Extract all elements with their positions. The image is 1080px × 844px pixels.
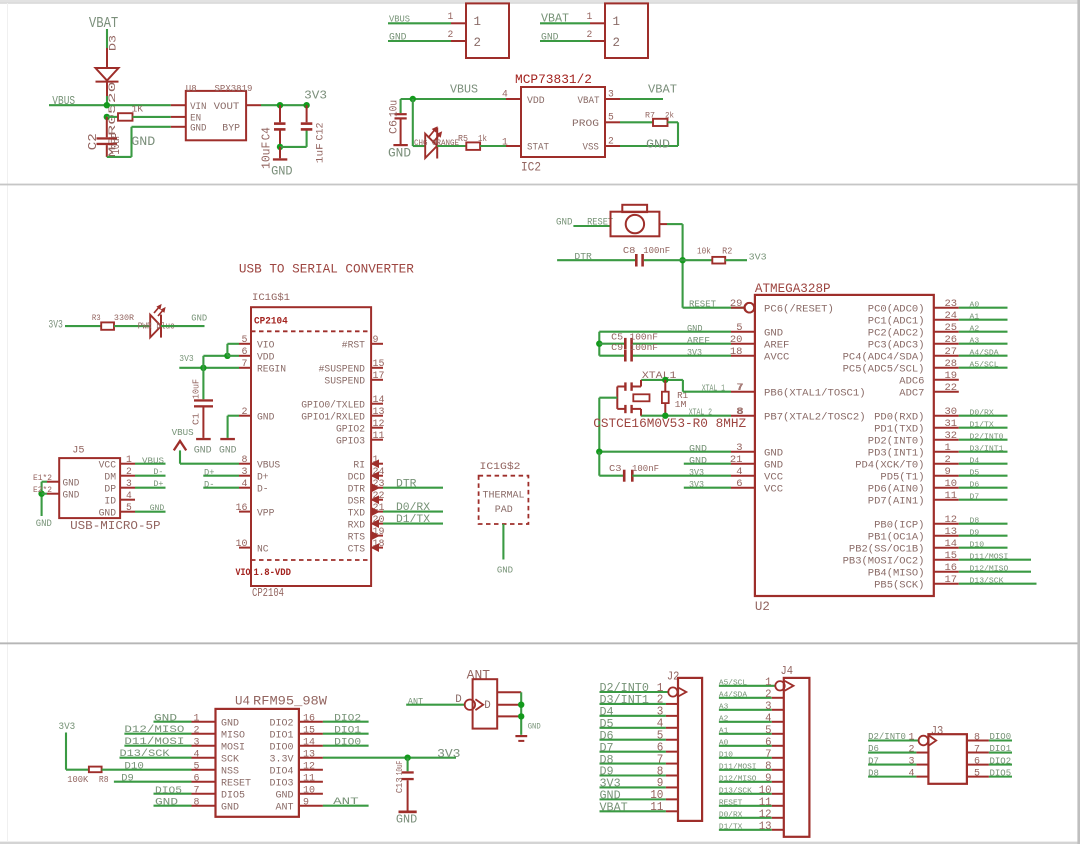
svg-text:C1: C1 xyxy=(191,413,202,425)
svg-text:VSS: VSS xyxy=(583,142,599,154)
svg-text:C9: C9 xyxy=(611,342,623,353)
svg-text:A4/SDA: A4/SDA xyxy=(719,691,748,699)
svg-text:15: 15 xyxy=(303,725,315,736)
svg-text:DSR: DSR xyxy=(348,497,365,508)
svg-text:MISO: MISO xyxy=(221,729,245,741)
svg-text:PB6(XTAL1/TOSC1): PB6(XTAL1/TOSC1) xyxy=(764,387,866,399)
svg-text:VCC: VCC xyxy=(764,471,783,483)
svg-text:GND: GND xyxy=(63,489,80,501)
svg-text:VBUS: VBUS xyxy=(389,14,410,25)
svg-text:D1/TX: D1/TX xyxy=(719,823,743,831)
svg-text:GND: GND xyxy=(528,722,541,731)
svg-text:A4/SDA: A4/SDA xyxy=(970,350,1000,358)
svg-text:D13/SCK: D13/SCK xyxy=(120,748,171,760)
svg-text:13: 13 xyxy=(303,749,315,760)
svg-text:DIO2: DIO2 xyxy=(334,713,361,724)
svg-text:CP2104: CP2104 xyxy=(254,317,288,328)
svg-text:GND: GND xyxy=(271,164,293,179)
svg-text:25: 25 xyxy=(945,322,958,334)
svg-text:3V3: 3V3 xyxy=(179,353,194,364)
svg-text:SUSPEND: SUSPEND xyxy=(324,377,365,388)
svg-text:RXD: RXD xyxy=(348,520,365,531)
svg-text:30: 30 xyxy=(945,406,958,418)
svg-text:10: 10 xyxy=(945,478,958,490)
svg-text:3: 3 xyxy=(242,467,248,478)
svg-text:PC2(ADC2): PC2(ADC2) xyxy=(868,327,925,339)
svg-text:AREF: AREF xyxy=(764,339,789,351)
svg-text:11: 11 xyxy=(945,490,958,502)
svg-text:AVCC: AVCC xyxy=(764,351,789,363)
svg-text:PB7(XTAL2/TOSC2): PB7(XTAL2/TOSC2) xyxy=(764,411,866,423)
svg-text:D-: D- xyxy=(204,480,215,490)
svg-text:CTS: CTS xyxy=(348,544,365,555)
svg-text:7: 7 xyxy=(737,382,743,394)
svg-text:MOSI: MOSI xyxy=(221,741,245,753)
svg-text:D+: D+ xyxy=(153,479,163,489)
svg-text:D0/RX: D0/RX xyxy=(719,811,743,819)
svg-text:20: 20 xyxy=(730,334,743,346)
svg-text:5: 5 xyxy=(126,503,132,514)
svg-text:14: 14 xyxy=(945,538,958,550)
svg-text:PC5(ADC5/SCL): PC5(ADC5/SCL) xyxy=(843,363,925,375)
svg-text:DIO1: DIO1 xyxy=(270,729,294,741)
svg-text:PC6(/RESET): PC6(/RESET) xyxy=(764,303,834,315)
svg-text:C13: C13 xyxy=(395,777,405,793)
svg-text:A2: A2 xyxy=(970,326,980,334)
svg-text:D10: D10 xyxy=(970,542,985,550)
svg-text:DIO1: DIO1 xyxy=(990,744,1012,754)
svg-text:19: 19 xyxy=(945,370,958,382)
svg-text:GND: GND xyxy=(646,138,670,152)
svg-text:2: 2 xyxy=(587,29,593,40)
svg-text:VCC: VCC xyxy=(99,460,116,471)
svg-text:26: 26 xyxy=(945,334,958,346)
svg-text:D3: D3 xyxy=(108,35,120,51)
svg-text:PROG: PROG xyxy=(572,118,599,130)
svg-text:A3: A3 xyxy=(719,703,728,711)
svg-text:3V3: 3V3 xyxy=(749,251,767,262)
svg-text:PB1(OC1A): PB1(OC1A) xyxy=(868,531,925,543)
svg-text:TXD: TXD xyxy=(348,508,365,519)
svg-text:D12/MISO: D12/MISO xyxy=(124,724,184,736)
svg-text:1: 1 xyxy=(613,14,621,29)
svg-text:2: 2 xyxy=(945,454,951,466)
svg-text:PB5(SCK): PB5(SCK) xyxy=(874,579,924,591)
svg-text:D0/RX: D0/RX xyxy=(396,502,430,514)
svg-text:VIO: VIO xyxy=(257,341,274,352)
svg-text:GND: GND xyxy=(63,477,80,489)
svg-text:GND: GND xyxy=(764,459,783,471)
svg-text:A1: A1 xyxy=(719,727,729,735)
svg-text:D-: D- xyxy=(257,485,269,496)
svg-text:VBUS: VBUS xyxy=(172,427,194,438)
svg-text:5: 5 xyxy=(194,761,200,772)
svg-text:1: 1 xyxy=(765,677,772,689)
svg-text:SPX3819: SPX3819 xyxy=(215,84,253,94)
svg-text:J3: J3 xyxy=(931,724,944,738)
svg-text:DIO4: DIO4 xyxy=(270,765,294,777)
svg-text:VDD: VDD xyxy=(257,353,274,364)
svg-text:VDD: VDD xyxy=(527,95,545,107)
svg-text:17: 17 xyxy=(373,371,385,382)
svg-text:VBUS: VBUS xyxy=(257,461,280,472)
svg-text:18: 18 xyxy=(730,346,743,358)
svg-text:6: 6 xyxy=(194,773,200,784)
svg-text:RESET: RESET xyxy=(689,298,716,309)
svg-text:10u: 10u xyxy=(389,100,401,117)
svg-text:D-: D- xyxy=(153,467,163,477)
svg-text:D2/INT0: D2/INT0 xyxy=(868,732,906,742)
svg-text:PB2(SS/OC1B): PB2(SS/OC1B) xyxy=(849,543,925,555)
svg-text:BYP: BYP xyxy=(222,123,240,135)
svg-text:A0: A0 xyxy=(970,302,980,310)
svg-text:GND: GND xyxy=(497,565,513,576)
svg-text:GND: GND xyxy=(191,314,207,324)
svg-text:GND: GND xyxy=(221,801,239,813)
svg-text:3: 3 xyxy=(126,479,132,490)
svg-text:ADC6: ADC6 xyxy=(899,375,924,387)
svg-text:1: 1 xyxy=(126,455,132,466)
svg-text:10: 10 xyxy=(759,785,772,797)
svg-text:2: 2 xyxy=(126,467,132,478)
svg-text:DTR: DTR xyxy=(396,478,417,490)
svg-text:DIO5: DIO5 xyxy=(155,786,182,797)
svg-text:3: 3 xyxy=(608,88,614,99)
svg-text:D8: D8 xyxy=(970,518,980,526)
svg-text:21: 21 xyxy=(730,454,743,466)
svg-text:DIO5: DIO5 xyxy=(221,789,245,801)
svg-text:U4: U4 xyxy=(235,695,250,709)
svg-text:D9: D9 xyxy=(970,530,980,538)
svg-text:8: 8 xyxy=(194,797,200,808)
svg-text:GND: GND xyxy=(257,413,274,424)
svg-text:AREF: AREF xyxy=(687,335,710,346)
svg-text:4: 4 xyxy=(502,88,508,99)
svg-text:D9: D9 xyxy=(121,773,134,784)
svg-text:DM: DM xyxy=(104,472,116,483)
svg-text:4: 4 xyxy=(126,491,132,502)
svg-text:R8: R8 xyxy=(99,774,109,785)
svg-text:RTS: RTS xyxy=(348,532,365,543)
svg-text:12: 12 xyxy=(945,514,958,526)
svg-text:1uF: 1uF xyxy=(315,143,327,163)
svg-text:23: 23 xyxy=(945,298,958,310)
svg-text:6: 6 xyxy=(765,737,772,749)
svg-text:VBAT: VBAT xyxy=(600,802,628,815)
svg-text:1: 1 xyxy=(474,14,482,29)
svg-text:RFM95_98W: RFM95_98W xyxy=(253,695,327,709)
svg-text:1M: 1M xyxy=(675,399,687,410)
svg-text:VBAT: VBAT xyxy=(541,12,569,26)
svg-text:17: 17 xyxy=(945,574,958,586)
svg-text:PD1(TXD): PD1(TXD) xyxy=(874,423,924,435)
svg-text:IC1G$2: IC1G$2 xyxy=(480,461,521,473)
svg-text:GND: GND xyxy=(154,713,177,724)
svg-text:GND: GND xyxy=(99,508,116,519)
svg-text:NSS: NSS xyxy=(221,765,239,777)
svg-text:GND: GND xyxy=(687,323,703,334)
svg-text:3.3V: 3.3V xyxy=(270,753,295,765)
svg-text:12: 12 xyxy=(303,761,315,772)
svg-text:VOUT: VOUT xyxy=(214,101,240,113)
svg-text:10: 10 xyxy=(236,539,248,550)
svg-text:DCD: DCD xyxy=(348,473,365,484)
svg-text:GND: GND xyxy=(689,455,707,466)
svg-text:GPIO2: GPIO2 xyxy=(336,425,365,436)
svg-text:100K: 100K xyxy=(67,774,88,785)
svg-text:D0/RX: D0/RX xyxy=(970,410,995,418)
svg-text:D+: D+ xyxy=(257,473,269,484)
svg-text:GND: GND xyxy=(764,447,783,459)
svg-text:D11/MOSI: D11/MOSI xyxy=(970,554,1009,562)
svg-text:D3/INT1: D3/INT1 xyxy=(970,446,1004,454)
svg-text:1k: 1k xyxy=(478,134,487,144)
svg-text:PB0(ICP): PB0(ICP) xyxy=(874,519,924,531)
svg-text:C2: C2 xyxy=(86,133,100,150)
svg-text:GND: GND xyxy=(155,798,178,809)
svg-text:PD0(RXD): PD0(RXD) xyxy=(874,411,924,423)
svg-text:11: 11 xyxy=(650,800,663,814)
svg-text:#SUSPEND: #SUSPEND xyxy=(319,365,365,376)
svg-text:PD3(INT1): PD3(INT1) xyxy=(868,447,925,459)
svg-text:GND: GND xyxy=(764,327,783,339)
svg-text:22: 22 xyxy=(945,382,958,394)
svg-text:A1: A1 xyxy=(970,314,980,322)
svg-text:12: 12 xyxy=(759,809,772,821)
svg-text:XTAL 1: XTAL 1 xyxy=(702,382,726,393)
svg-text:R7: R7 xyxy=(645,111,655,121)
svg-text:10k: 10k xyxy=(697,247,711,257)
svg-text:31: 31 xyxy=(945,418,958,430)
svg-text:1: 1 xyxy=(448,11,454,22)
svg-text:DIO0: DIO0 xyxy=(334,737,361,748)
svg-text:GND: GND xyxy=(221,717,239,729)
svg-text:3: 3 xyxy=(909,756,915,768)
svg-text:11: 11 xyxy=(373,431,385,442)
svg-text:PC1(ADC1): PC1(ADC1) xyxy=(868,315,925,327)
svg-text:E1*2: E1*2 xyxy=(33,474,52,483)
svg-text:5: 5 xyxy=(242,335,248,346)
svg-text:E2*2: E2*2 xyxy=(33,486,52,495)
svg-text:GND: GND xyxy=(556,218,573,229)
svg-text:2: 2 xyxy=(765,689,772,701)
svg-text:28: 28 xyxy=(945,358,958,370)
svg-text:4: 4 xyxy=(909,768,915,780)
svg-text:ID: ID xyxy=(104,496,116,507)
svg-text:3V3: 3V3 xyxy=(304,88,327,102)
svg-text:6: 6 xyxy=(974,756,980,768)
svg-text:PD7(AIN1): PD7(AIN1) xyxy=(868,495,925,507)
svg-text:3V3: 3V3 xyxy=(687,347,702,358)
svg-text:U2: U2 xyxy=(755,600,770,614)
svg-text:D10: D10 xyxy=(719,751,733,759)
svg-text:GPIO3: GPIO3 xyxy=(336,437,365,448)
svg-text:6: 6 xyxy=(242,347,248,358)
svg-text:16: 16 xyxy=(303,713,315,724)
svg-text:10uF: 10uF xyxy=(109,133,123,155)
svg-text:C4: C4 xyxy=(260,127,274,140)
svg-text:VBAT: VBAT xyxy=(89,15,118,32)
svg-text:8: 8 xyxy=(765,761,772,773)
svg-text:PB4(MISO): PB4(MISO) xyxy=(868,567,925,579)
svg-text:5: 5 xyxy=(736,322,742,334)
svg-text:VCC: VCC xyxy=(764,483,783,495)
svg-text:A5/SCL: A5/SCL xyxy=(970,362,999,370)
svg-text:PC3(ADC3): PC3(ADC3) xyxy=(868,339,925,351)
svg-text:1: 1 xyxy=(945,442,951,454)
svg-text:GND: GND xyxy=(150,503,165,513)
svg-text:J4: J4 xyxy=(781,664,794,678)
svg-text:SCK: SCK xyxy=(221,753,240,765)
svg-text:D11/MOSI: D11/MOSI xyxy=(124,736,184,748)
svg-text:3V3: 3V3 xyxy=(48,320,63,332)
svg-text:GND: GND xyxy=(689,443,707,454)
svg-text:D4: D4 xyxy=(970,458,980,466)
svg-text:NC: NC xyxy=(257,544,269,555)
svg-text:8: 8 xyxy=(242,455,248,466)
svg-text:VPP: VPP xyxy=(257,508,274,519)
svg-text:PD6(AIN0): PD6(AIN0) xyxy=(868,483,925,495)
svg-text:D2/INT0: D2/INT0 xyxy=(970,434,1004,442)
svg-text:3V3: 3V3 xyxy=(437,747,460,761)
svg-text:DTR: DTR xyxy=(348,485,365,496)
svg-text:D12/MISO: D12/MISO xyxy=(970,566,1009,574)
svg-text:DIO1: DIO1 xyxy=(334,725,361,736)
svg-text:A5/SCL: A5/SCL xyxy=(719,679,747,687)
svg-text:VBUS: VBUS xyxy=(450,83,478,97)
svg-text:C3: C3 xyxy=(609,463,622,474)
svg-text:D: D xyxy=(455,694,462,706)
svg-text:2: 2 xyxy=(909,744,915,756)
svg-text:9: 9 xyxy=(945,466,951,478)
svg-text:10uF: 10uF xyxy=(191,379,202,399)
svg-text:330R: 330R xyxy=(114,313,134,323)
svg-text:3V3: 3V3 xyxy=(689,467,704,478)
svg-text:D10: D10 xyxy=(124,761,143,772)
svg-text:MCP73831/2: MCP73831/2 xyxy=(515,72,592,87)
svg-text:VIN: VIN xyxy=(190,101,206,113)
svg-text:10: 10 xyxy=(303,785,315,796)
svg-text:ANT: ANT xyxy=(333,797,359,808)
svg-text:8: 8 xyxy=(974,732,980,744)
svg-text:ANT: ANT xyxy=(467,669,491,683)
svg-text:RESET: RESET xyxy=(719,799,743,807)
svg-text:2: 2 xyxy=(194,725,200,736)
svg-text:D: D xyxy=(484,700,491,712)
svg-text:DIO3: DIO3 xyxy=(270,777,294,789)
svg-text:1K: 1K xyxy=(132,104,144,115)
svg-text:7: 7 xyxy=(765,749,771,761)
svg-text:GND: GND xyxy=(190,123,206,135)
svg-text:1: 1 xyxy=(194,713,200,724)
svg-text:PC4(ADC4/SDA): PC4(ADC4/SDA) xyxy=(843,351,925,363)
svg-text:10uF: 10uF xyxy=(260,142,274,169)
svg-text:D1/TX: D1/TX xyxy=(970,422,995,430)
svg-text:A3: A3 xyxy=(970,338,980,346)
svg-text:A0: A0 xyxy=(719,739,728,747)
svg-text:VBAT: VBAT xyxy=(648,83,677,97)
svg-text:D1/TX: D1/TX xyxy=(396,514,430,526)
svg-text:GND: GND xyxy=(36,519,52,530)
svg-text:GND: GND xyxy=(219,446,237,457)
svg-text:13: 13 xyxy=(759,821,772,833)
svg-text:9: 9 xyxy=(303,797,309,808)
svg-text:GND: GND xyxy=(194,446,212,457)
svg-text:15: 15 xyxy=(945,550,958,562)
svg-text:32: 32 xyxy=(945,430,958,442)
svg-text:DIO2: DIO2 xyxy=(270,717,294,729)
svg-text:3: 3 xyxy=(736,442,742,454)
svg-text:USB-MICRO-5P: USB-MICRO-5P xyxy=(70,520,161,533)
svg-text:USB TO SERIAL CONVERTER: USB TO SERIAL CONVERTER xyxy=(239,261,414,276)
svg-text:3V3: 3V3 xyxy=(59,722,76,733)
svg-text:C5: C5 xyxy=(611,331,623,342)
svg-text:7: 7 xyxy=(974,744,980,756)
svg-text:D5: D5 xyxy=(970,470,980,478)
svg-text:VIO: VIO xyxy=(236,568,251,579)
svg-text:GND: GND xyxy=(131,134,155,149)
svg-text:2k: 2k xyxy=(665,111,674,121)
svg-text:10uF: 10uF xyxy=(395,761,405,775)
svg-text:RI: RI xyxy=(353,461,365,472)
svg-text:13: 13 xyxy=(945,526,958,538)
svg-text:C12: C12 xyxy=(315,123,327,141)
svg-text:4: 4 xyxy=(242,479,248,490)
svg-text:DIO2: DIO2 xyxy=(990,756,1012,766)
svg-text:DIO5: DIO5 xyxy=(990,768,1012,778)
svg-text:7: 7 xyxy=(242,359,248,370)
svg-text:GND: GND xyxy=(541,32,559,43)
svg-text:D+: D+ xyxy=(204,468,215,478)
svg-text:R2: R2 xyxy=(722,247,732,257)
svg-text:7: 7 xyxy=(194,785,200,796)
svg-text:29: 29 xyxy=(730,298,743,310)
svg-text:DIO0: DIO0 xyxy=(990,732,1012,742)
svg-text:PC0(ADC0): PC0(ADC0) xyxy=(868,303,925,315)
svg-text:1.8-VDD: 1.8-VDD xyxy=(254,568,292,579)
svg-text:ANT: ANT xyxy=(276,801,294,813)
svg-text:3V3: 3V3 xyxy=(689,479,704,490)
svg-text:14: 14 xyxy=(303,737,315,748)
svg-text:CP2104: CP2104 xyxy=(252,587,284,600)
svg-text:D12/MISO: D12/MISO xyxy=(719,775,757,783)
svg-text:2: 2 xyxy=(474,35,482,50)
svg-text:4: 4 xyxy=(736,466,742,478)
svg-text:D8: D8 xyxy=(868,768,879,778)
svg-text:5: 5 xyxy=(608,112,614,123)
svg-text:15: 15 xyxy=(373,359,385,370)
svg-text:GPIO1/RXLED: GPIO1/RXLED xyxy=(301,412,365,424)
svg-text:D13/SCK: D13/SCK xyxy=(719,787,752,795)
svg-text:VBUS: VBUS xyxy=(142,456,164,466)
svg-text:4: 4 xyxy=(765,713,772,725)
svg-text:DP: DP xyxy=(104,484,116,495)
svg-text:GPIO0/TXLED: GPIO0/TXLED xyxy=(301,400,365,412)
svg-text:1: 1 xyxy=(502,136,508,147)
svg-text:100nF: 100nF xyxy=(632,463,659,474)
svg-text:2: 2 xyxy=(448,29,454,40)
svg-text:CSTCE16M0V53-R0 8MHZ: CSTCE16M0V53-R0 8MHZ xyxy=(593,416,746,431)
svg-text:THERMAL: THERMAL xyxy=(483,490,525,502)
svg-text:2: 2 xyxy=(608,135,614,146)
svg-text:GND: GND xyxy=(276,789,294,801)
svg-text:GND: GND xyxy=(396,813,417,826)
svg-text:16: 16 xyxy=(236,503,248,514)
svg-text:D6: D6 xyxy=(970,482,980,490)
svg-text:14: 14 xyxy=(373,395,385,406)
svg-text:6: 6 xyxy=(736,478,742,490)
svg-text:D7: D7 xyxy=(970,494,980,502)
